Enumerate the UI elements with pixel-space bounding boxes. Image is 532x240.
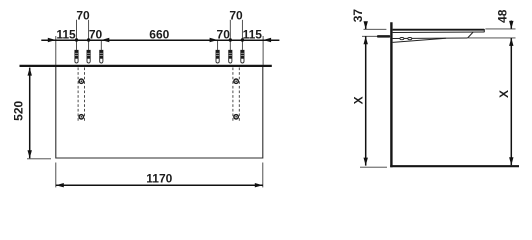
dimension 37 — [364, 21, 368, 44]
arrow 520 up — [28, 68, 32, 76]
arrow 1170 right — [255, 183, 263, 187]
mounting bolt pin 3 — [100, 50, 103, 63]
countertop front edge — [483, 29, 485, 32]
svg-text:37: 37 — [351, 9, 365, 23]
arrow at left edge (115 outside) — [48, 38, 56, 42]
floor line (side view) — [390, 165, 519, 167]
arrow X left bottom — [364, 158, 368, 166]
bracket bottom diagonal — [393, 38, 446, 42]
dimension 520 line — [29, 68, 31, 159]
svg-text:70: 70 — [76, 9, 90, 23]
mounting bolt pin 1 — [75, 50, 78, 63]
svg-text:520: 520 — [11, 100, 25, 120]
bracket hole right lower — [234, 115, 238, 119]
dimension 1170 line — [56, 184, 263, 186]
dimension X right line — [510, 38, 512, 165]
svg-text:115: 115 — [56, 27, 76, 41]
arrow 520 down — [28, 150, 32, 158]
svg-text:1170: 1170 — [146, 172, 172, 186]
svg-text:X: X — [497, 90, 511, 98]
wall line (plan view) — [20, 65, 272, 67]
junction dot bolt5 — [229, 38, 232, 41]
svg-text:48: 48 — [495, 9, 509, 23]
arrow X right bottom — [509, 157, 513, 165]
bracket front notch — [468, 32, 474, 38]
arrow 1170 left — [56, 183, 64, 187]
mounting bolt pin 4 — [216, 50, 219, 63]
dimension 48 — [509, 21, 513, 46]
dimension X left line — [365, 36, 367, 165]
junction dot bolt6 — [241, 38, 244, 41]
arrow at right edge (115 outside) — [263, 38, 271, 42]
countertop outline 1170x520 (plan view) — [56, 67, 263, 158]
svg-text:X: X — [351, 96, 365, 104]
junction dot bolt2 — [87, 38, 90, 41]
bracket top line — [393, 37, 468, 40]
wall anchor pin (side view) — [362, 35, 390, 38]
bracket hole right upper — [234, 79, 238, 83]
svg-text:70: 70 — [217, 27, 231, 41]
tick top surface left of wall (37 upper ref) — [364, 28, 387, 30]
hidden bracket slot right (dashed) — [233, 68, 239, 122]
svg-text:660: 660 — [149, 27, 169, 41]
tick X left bottom — [360, 166, 387, 168]
bracket hole left upper — [79, 79, 83, 83]
arrow 660 left — [101, 38, 109, 42]
tick 48 upper — [485, 28, 515, 30]
countertop top surface (side view) — [393, 29, 485, 31]
top dimension line — [41, 39, 279, 41]
arrow 660 right — [210, 38, 218, 42]
bracket screw 2 — [408, 38, 412, 40]
extension lines top dimension row — [56, 20, 263, 65]
svg-text:115: 115 — [243, 27, 263, 41]
bracket screw 1 — [400, 38, 404, 40]
tick 520 bottom — [27, 158, 51, 160]
junction dot bolt1 — [75, 38, 78, 41]
mounting bolt pin 5 — [229, 50, 232, 63]
mounting bolt pin 2 — [87, 50, 90, 63]
svg-text:70: 70 — [229, 9, 243, 23]
svg-text:70: 70 — [89, 27, 103, 41]
bracket hole left lower — [79, 115, 83, 119]
hidden bracket slot left (dashed) — [78, 68, 84, 122]
countertop slab underside — [393, 31, 485, 34]
wall line (side view) — [390, 22, 392, 167]
mounting bolt pin 6 — [241, 50, 244, 63]
tick 48 lower / front underside extension — [468, 37, 515, 39]
extension lines 1170 — [56, 163, 263, 188]
